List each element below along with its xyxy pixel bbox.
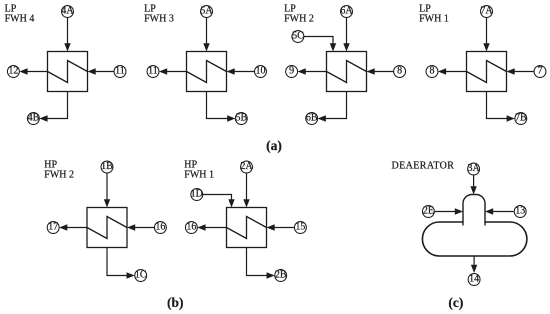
svg-text:8: 8 bbox=[430, 66, 435, 77]
svg-text:2B: 2B bbox=[275, 270, 287, 281]
svg-text:10: 10 bbox=[256, 66, 266, 77]
svg-text:6A: 6A bbox=[340, 6, 353, 17]
svg-text:DEAERATOR: DEAERATOR bbox=[392, 161, 455, 172]
svg-text:2E: 2E bbox=[423, 206, 434, 217]
svg-text:1D: 1D bbox=[191, 189, 203, 200]
svg-text:1C: 1C bbox=[135, 270, 147, 281]
svg-text:16: 16 bbox=[155, 222, 165, 233]
svg-text:9: 9 bbox=[289, 66, 294, 77]
svg-text:FWH 3: FWH 3 bbox=[144, 14, 174, 25]
svg-text:14: 14 bbox=[469, 274, 479, 285]
svg-text:5A: 5A bbox=[200, 6, 213, 17]
svg-text:5B: 5B bbox=[235, 113, 247, 124]
svg-text:7A: 7A bbox=[480, 6, 493, 17]
svg-text:4A: 4A bbox=[61, 6, 74, 17]
svg-text:12: 12 bbox=[8, 66, 18, 77]
svg-text:7: 7 bbox=[538, 66, 543, 77]
svg-text:FWH 1: FWH 1 bbox=[419, 14, 449, 25]
svg-text:(b): (b) bbox=[167, 295, 184, 310]
svg-text:16: 16 bbox=[186, 222, 196, 233]
svg-text:6B: 6B bbox=[306, 113, 318, 124]
svg-text:5C: 5C bbox=[292, 31, 304, 42]
svg-text:2A: 2A bbox=[240, 161, 253, 172]
svg-text:FWH 2: FWH 2 bbox=[44, 170, 74, 181]
svg-text:11: 11 bbox=[148, 66, 158, 77]
svg-text:8: 8 bbox=[397, 66, 402, 77]
svg-text:(a): (a) bbox=[266, 138, 282, 153]
svg-text:17: 17 bbox=[48, 222, 58, 233]
svg-text:FWH 1: FWH 1 bbox=[184, 170, 214, 181]
svg-text:13: 13 bbox=[515, 206, 525, 217]
svg-text:3A: 3A bbox=[467, 163, 480, 174]
svg-text:(c): (c) bbox=[448, 295, 463, 310]
svg-text:1B: 1B bbox=[101, 161, 113, 172]
svg-text:7B: 7B bbox=[515, 113, 527, 124]
svg-text:FWH 4: FWH 4 bbox=[5, 14, 35, 25]
svg-text:FWH 2: FWH 2 bbox=[284, 14, 314, 25]
svg-text:4B: 4B bbox=[28, 113, 40, 124]
svg-text:15: 15 bbox=[295, 222, 305, 233]
svg-text:11: 11 bbox=[115, 66, 125, 77]
